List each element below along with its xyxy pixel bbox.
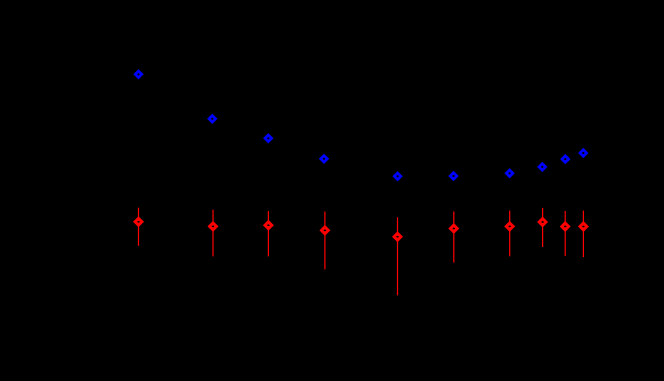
errorbar series S2 point 8 — [537, 208, 548, 247]
scatter series S1 point 2 — [207, 114, 217, 124]
errorbar series S2 point 9 — [560, 211, 571, 256]
scatter series S1 point 7 — [504, 168, 514, 178]
errorbar series S2 point 2 — [208, 210, 219, 257]
scatter series S1 point 10 — [578, 148, 588, 158]
errorbar series S2 point 4 — [319, 212, 330, 270]
scatter series S1 point 4 — [319, 154, 329, 164]
errorbar series S2 point 1 — [133, 208, 144, 246]
scatter series S1 point 6 — [448, 171, 458, 181]
scatter series S1 point 3 — [263, 133, 273, 143]
scatter series S1 point 9 — [560, 154, 570, 164]
errorbar series S2 point 7 — [504, 211, 515, 257]
errorbar series S2 point 6 — [448, 211, 459, 262]
errorbar series S2 point 3 — [263, 211, 274, 256]
errorbar series S2 point 5 — [392, 217, 403, 295]
scatter series S1 point 5 — [392, 171, 402, 181]
scatter series S1 point 1 — [133, 69, 143, 79]
errorbar series S2 point 10 — [578, 211, 589, 258]
scatter series S1 point 8 — [537, 162, 547, 172]
